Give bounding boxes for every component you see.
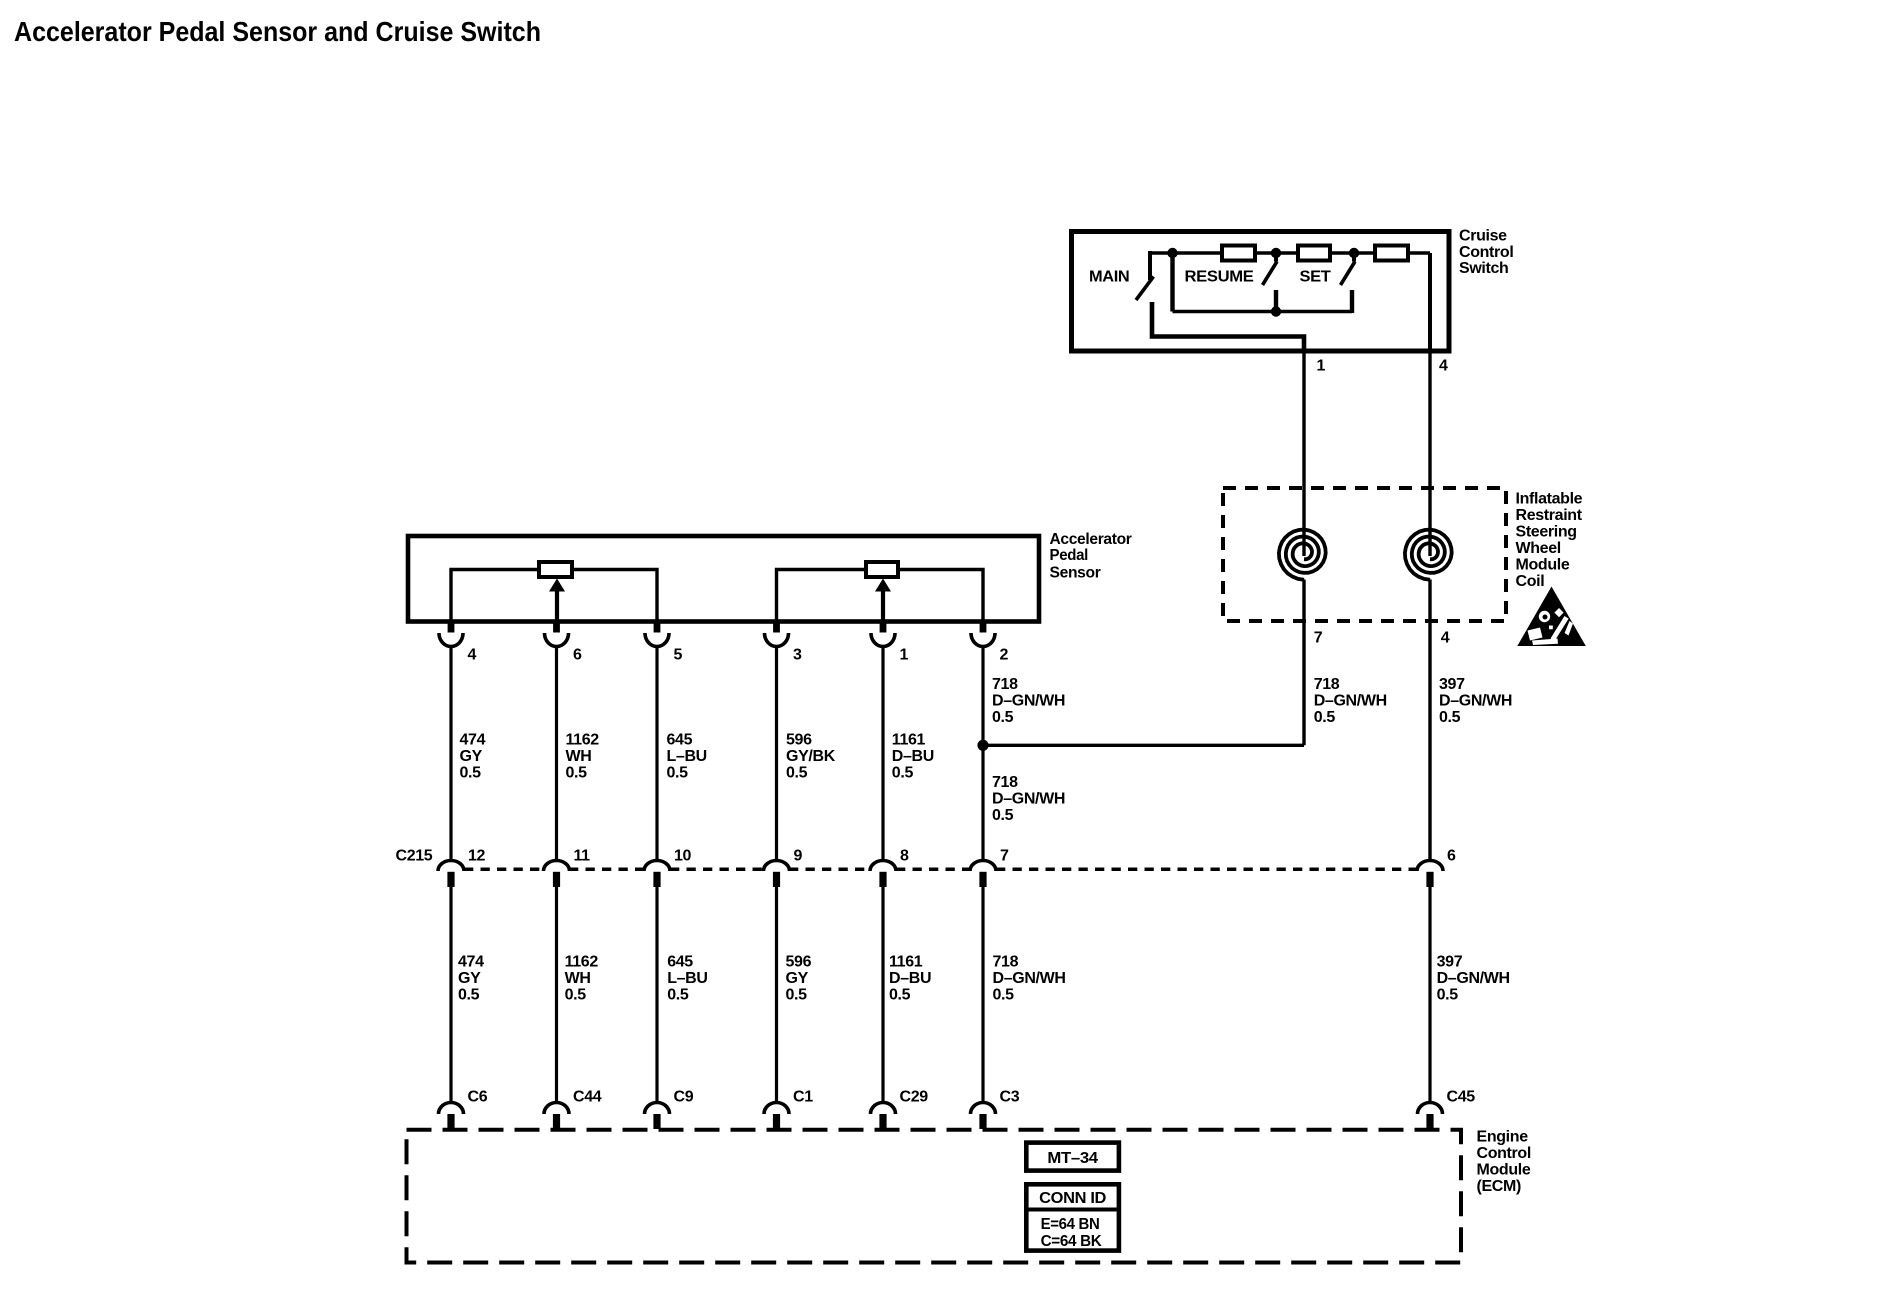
resistor R1 (cruise) xyxy=(1222,246,1255,261)
svg-text:Sensor: Sensor xyxy=(1050,564,1101,581)
svg-text:0.5: 0.5 xyxy=(892,764,914,781)
svg-text:645: 645 xyxy=(667,954,693,971)
svg-text:1161: 1161 xyxy=(889,954,923,971)
svg-text:Steering: Steering xyxy=(1516,524,1577,541)
svg-text:0.5: 0.5 xyxy=(458,987,480,1004)
connector pin 3 (accelerator pedal sensor) xyxy=(773,622,780,633)
svg-text:D–GN/WH: D–GN/WH xyxy=(992,693,1065,710)
svg-text:C215: C215 xyxy=(396,847,433,864)
wire C215 -> ECM C3 xyxy=(981,887,984,1103)
wire bottom rail RESUME/SET xyxy=(1173,310,1353,313)
svg-text:E=64 BN: E=64 BN xyxy=(1041,1216,1100,1233)
wire MAIN lower conductor to pin 1 xyxy=(1152,302,1304,353)
svg-text:1162: 1162 xyxy=(565,954,599,971)
svg-text:6: 6 xyxy=(573,647,582,664)
svg-text:1162: 1162 xyxy=(566,731,600,748)
node junction top bus / resume branch xyxy=(1167,248,1177,258)
svg-text:0.5: 0.5 xyxy=(1437,987,1459,1004)
wire coil pin 4 exit down to C215 pin 6 xyxy=(1428,580,1431,861)
svg-text:C=64 BK: C=64 BK xyxy=(1041,1233,1103,1250)
svg-text:C9: C9 xyxy=(674,1089,694,1106)
resistor P2 element xyxy=(866,562,898,577)
wire pin 4 drop inside cruise box xyxy=(1428,253,1432,353)
svg-text:0.5: 0.5 xyxy=(667,764,689,781)
resistor R2 (cruise) xyxy=(1298,246,1330,261)
wire coil pin7 jumper to pin2 wire xyxy=(983,744,1304,747)
svg-text:6: 6 xyxy=(1447,847,1456,864)
svg-text:Switch: Switch xyxy=(1459,260,1508,277)
svg-text:C6: C6 xyxy=(468,1089,488,1106)
svg-text:8: 8 xyxy=(900,847,909,864)
svg-text:Coil: Coil xyxy=(1516,573,1545,590)
wire C215 -> ECM C9 xyxy=(655,887,658,1103)
wire SET fixed contact stub xyxy=(1352,253,1356,262)
svg-text:596: 596 xyxy=(786,954,812,971)
connector C215 pin 12 xyxy=(438,861,464,871)
svg-text:D–BU: D–BU xyxy=(892,748,934,765)
wire pin2 -> C215 pin7 xyxy=(981,645,984,860)
svg-text:GY: GY xyxy=(786,970,809,987)
svg-text:10: 10 xyxy=(674,847,692,864)
inflatable restraint steering wheel module coil box (dashed) xyxy=(1223,488,1506,621)
svg-text:0.5: 0.5 xyxy=(786,764,808,781)
svg-text:GY/BK: GY/BK xyxy=(786,748,836,765)
svg-text:7: 7 xyxy=(1000,847,1009,864)
svg-text:645: 645 xyxy=(667,731,693,748)
svg-text:4: 4 xyxy=(468,647,477,664)
svg-text:Control: Control xyxy=(1459,244,1513,261)
svg-text:7: 7 xyxy=(1314,630,1323,647)
resistor P1 element xyxy=(539,562,572,577)
connector C215 pin 9 xyxy=(764,861,790,871)
svg-text:0.5: 0.5 xyxy=(993,987,1015,1004)
svg-text:474: 474 xyxy=(458,954,484,971)
svg-text:Module: Module xyxy=(1477,1162,1531,1179)
svg-text:596: 596 xyxy=(786,731,812,748)
wire pin3 -> C215 pin9 xyxy=(775,645,778,860)
svg-text:D–GN/WH: D–GN/WH xyxy=(1439,693,1512,710)
svg-text:Accelerator: Accelerator xyxy=(1050,531,1132,548)
node junction bottom rail / resume contact xyxy=(1271,306,1281,316)
wire pin6 -> C215 pin11 xyxy=(555,645,558,860)
svg-text:D–BU: D–BU xyxy=(889,970,931,987)
connector pin 6 (accelerator pedal sensor) xyxy=(553,622,560,633)
wire C215 -> ECM C29 xyxy=(881,887,884,1103)
svg-text:2: 2 xyxy=(1000,647,1009,664)
svg-text:0.5: 0.5 xyxy=(1439,709,1461,726)
connector C215 dashed line xyxy=(464,867,543,871)
svg-text:1161: 1161 xyxy=(892,731,926,748)
svg-text:718: 718 xyxy=(1314,676,1340,693)
svg-text:0.5: 0.5 xyxy=(460,764,482,781)
svg-text:5: 5 xyxy=(674,647,683,664)
svg-text:0.5: 0.5 xyxy=(667,987,689,1004)
node junction 718 wires xyxy=(977,740,988,751)
svg-text:0.5: 0.5 xyxy=(992,709,1014,726)
connector ECM C45 xyxy=(1418,1103,1443,1115)
SRS warning triangle icon xyxy=(1517,587,1586,647)
svg-text:WH: WH xyxy=(565,970,591,987)
node junction top bus / set fixed contact xyxy=(1349,248,1359,258)
connector pin 1 (accelerator pedal sensor) xyxy=(880,622,887,633)
coil L1 (pin 7 spiral) xyxy=(1279,530,1326,580)
connector pin 5 (accelerator pedal sensor) xyxy=(654,622,661,633)
svg-text:L–BU: L–BU xyxy=(667,748,707,765)
svg-text:C29: C29 xyxy=(900,1089,929,1106)
svg-text:Restraint: Restraint xyxy=(1516,507,1583,524)
svg-text:Control: Control xyxy=(1477,1145,1531,1162)
svg-text:Engine: Engine xyxy=(1477,1129,1529,1146)
svg-text:4: 4 xyxy=(1441,630,1450,647)
cruise control switch box S1 xyxy=(1072,232,1450,352)
svg-text:0.5: 0.5 xyxy=(992,807,1014,824)
svg-text:MT–34: MT–34 xyxy=(1047,1150,1098,1167)
connector ECM C3 xyxy=(971,1103,996,1115)
wiper arrow P2 xyxy=(881,591,885,621)
svg-text:Cruise: Cruise xyxy=(1459,228,1507,245)
connector ECM C29 xyxy=(871,1103,896,1115)
MT-34 reference box xyxy=(1026,1143,1119,1171)
connector pin 2 (accelerator pedal sensor) xyxy=(980,622,987,633)
accelerator pedal sensor box B1 xyxy=(408,536,1039,622)
switch SET blade xyxy=(1341,262,1356,286)
svg-text:GY: GY xyxy=(460,748,483,765)
svg-text:0.5: 0.5 xyxy=(889,987,911,1004)
potentiometer P1 rail wires xyxy=(451,570,539,622)
wire C215 -> ECM C1 xyxy=(775,887,778,1103)
svg-text:D–GN/WH: D–GN/WH xyxy=(992,790,1065,807)
svg-text:12: 12 xyxy=(468,847,486,864)
connector ECM C1 xyxy=(764,1103,789,1115)
wire pin4 -> C215 pin12 xyxy=(449,645,452,860)
wire C215 -> ECM C6 xyxy=(449,887,452,1103)
wire C215 pin6 -> ECM C45 xyxy=(1428,887,1431,1103)
wire SET bottom contact riser xyxy=(1350,290,1354,313)
svg-text:1: 1 xyxy=(900,647,909,664)
svg-text:C44: C44 xyxy=(573,1089,602,1106)
switch RESUME blade xyxy=(1263,262,1278,286)
wire pin5 -> C215 pin10 xyxy=(655,645,658,860)
svg-text:Inflatable: Inflatable xyxy=(1516,491,1583,508)
wire C215 -> ECM C44 xyxy=(555,887,558,1103)
wire cruise pin 4 down to coil xyxy=(1428,353,1431,556)
svg-text:1: 1 xyxy=(1317,358,1326,375)
svg-text:9: 9 xyxy=(794,847,803,864)
svg-text:SET: SET xyxy=(1300,269,1332,286)
connector C215 pin 8 xyxy=(870,861,896,871)
svg-text:0.5: 0.5 xyxy=(1314,709,1336,726)
wire top bus inside cruise switch xyxy=(1150,251,1430,254)
svg-text:4: 4 xyxy=(1439,358,1448,375)
connector C215 pin 10 xyxy=(644,861,670,871)
connector ECM C9 xyxy=(645,1103,670,1115)
connector C215 pin 7 xyxy=(970,861,996,871)
svg-text:718: 718 xyxy=(993,954,1019,971)
svg-text:(ECM): (ECM) xyxy=(1477,1178,1521,1195)
svg-text:718: 718 xyxy=(992,774,1018,791)
svg-text:11: 11 xyxy=(574,847,591,864)
svg-text:RESUME: RESUME xyxy=(1185,269,1255,286)
svg-text:Wheel: Wheel xyxy=(1516,540,1561,557)
CONN ID table xyxy=(1026,1184,1119,1250)
svg-text:D–GN/WH: D–GN/WH xyxy=(1314,693,1387,710)
wire RESUME fixed contact stub xyxy=(1274,253,1278,262)
resistor R3 (cruise) xyxy=(1375,246,1408,261)
connector C215 pin 11 xyxy=(544,861,570,871)
svg-text:397: 397 xyxy=(1437,954,1463,971)
svg-text:3: 3 xyxy=(793,647,802,664)
svg-text:Module: Module xyxy=(1516,557,1570,574)
svg-text:718: 718 xyxy=(992,676,1018,693)
svg-text:C3: C3 xyxy=(1000,1089,1020,1106)
svg-text:Accelerator Pedal Sensor and C: Accelerator Pedal Sensor and Cruise Swit… xyxy=(14,16,541,47)
svg-text:C45: C45 xyxy=(1447,1089,1476,1106)
svg-text:GY: GY xyxy=(458,970,481,987)
svg-text:0.5: 0.5 xyxy=(565,987,587,1004)
svg-text:L–BU: L–BU xyxy=(667,970,707,987)
wire cruise pin 1 down to coil xyxy=(1302,353,1305,556)
connector ECM C6 xyxy=(439,1103,464,1115)
connector pin 4 (accelerator pedal sensor) xyxy=(448,622,455,633)
svg-text:CONN ID: CONN ID xyxy=(1039,1190,1106,1207)
svg-text:D–GN/WH: D–GN/WH xyxy=(1437,970,1510,987)
svg-text:474: 474 xyxy=(460,731,486,748)
wire pin1 -> C215 pin8 xyxy=(881,645,884,860)
coil L2 (pin 4 spiral) xyxy=(1405,530,1452,580)
connector C215 pin 6 xyxy=(1417,861,1443,871)
svg-text:397: 397 xyxy=(1439,676,1465,693)
engine control module (ECM) box (dashed) xyxy=(407,1130,1462,1263)
svg-text:WH: WH xyxy=(566,748,592,765)
svg-text:D–GN/WH: D–GN/WH xyxy=(993,970,1066,987)
wire RESUME bottom contact riser xyxy=(1274,290,1278,312)
switch MAIN blade xyxy=(1136,277,1154,301)
svg-text:MAIN: MAIN xyxy=(1089,269,1129,286)
node junction top bus / resume fixed contact xyxy=(1271,248,1281,258)
wire junction down to bottom rail xyxy=(1170,253,1174,312)
svg-text:0.5: 0.5 xyxy=(566,764,588,781)
connector ECM C44 xyxy=(544,1103,569,1115)
wire MAIN fixed contact stub xyxy=(1148,251,1152,280)
potentiometer P2 rail wires xyxy=(777,570,867,622)
svg-text:C1: C1 xyxy=(793,1089,813,1106)
svg-text:Pedal: Pedal xyxy=(1050,547,1089,564)
svg-text:0.5: 0.5 xyxy=(786,987,808,1004)
wire coil pin 7 exit down xyxy=(1302,580,1305,746)
wiper arrow P1 xyxy=(555,591,559,621)
